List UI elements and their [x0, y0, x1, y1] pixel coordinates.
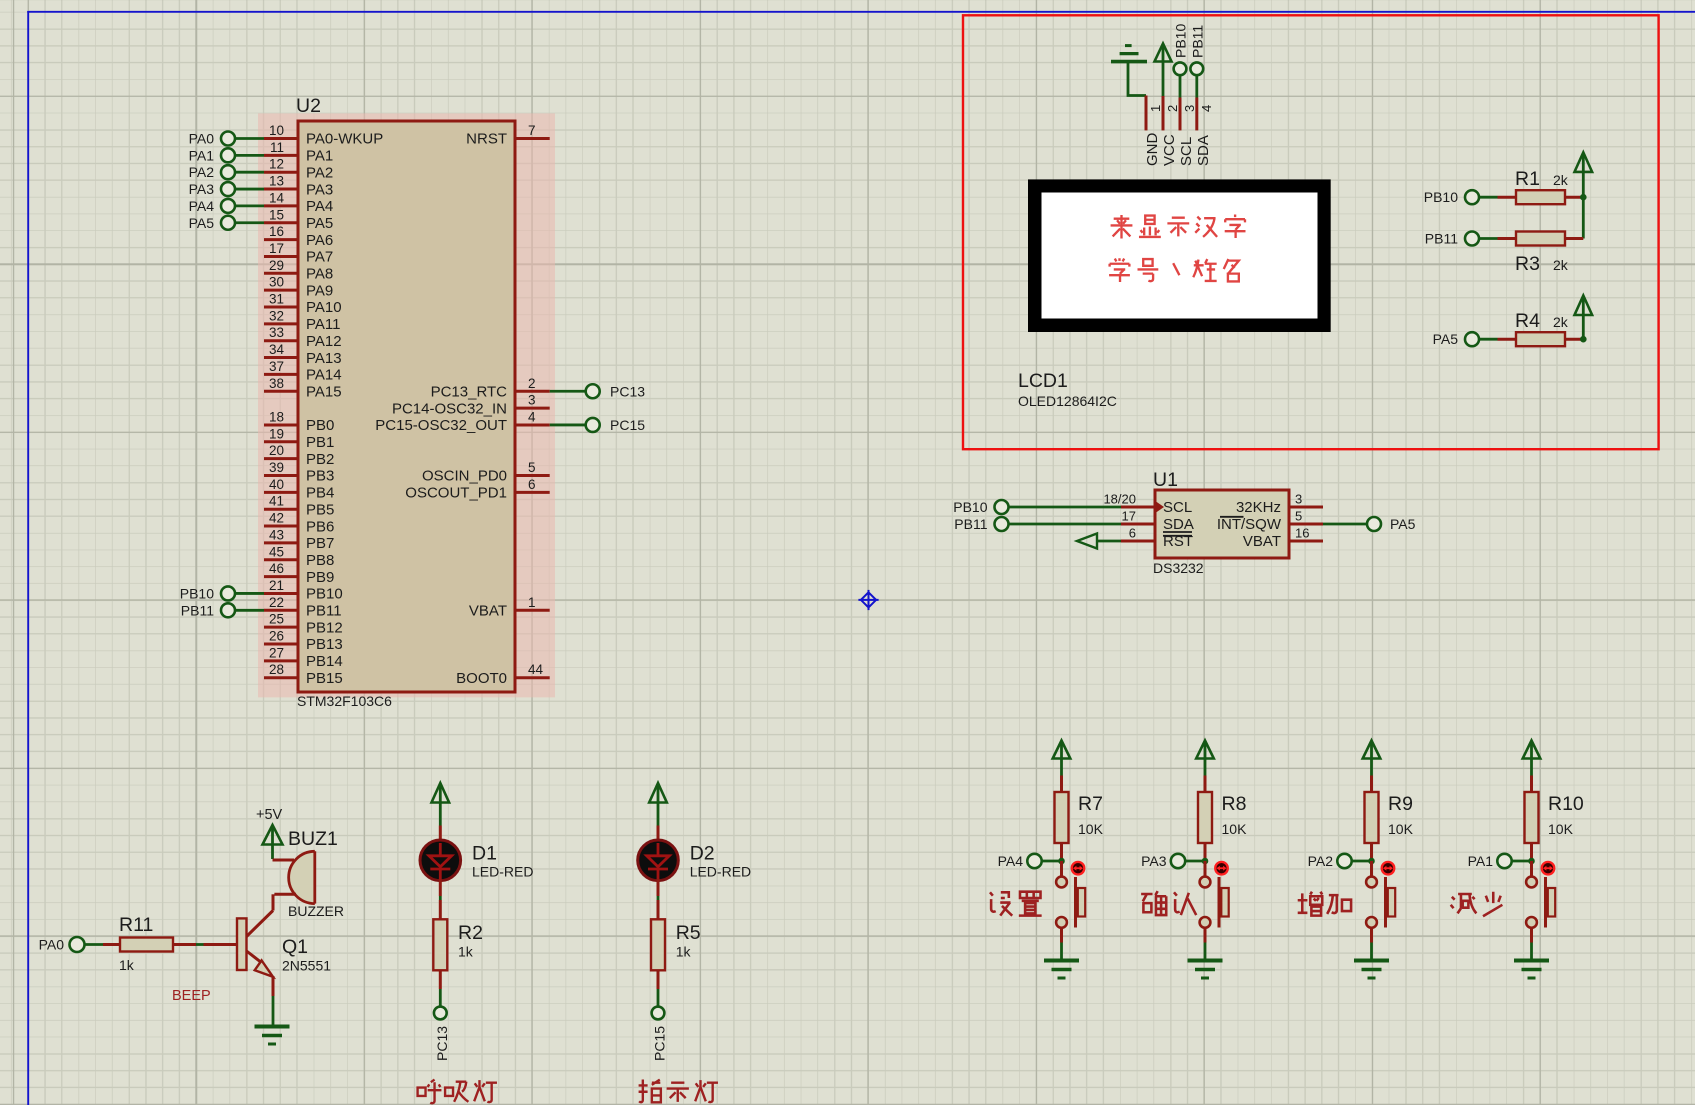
svg-text:PB2: PB2 — [306, 451, 334, 468]
svg-text:10: 10 — [269, 123, 284, 138]
LCD1 display screen — [1042, 193, 1318, 319]
svg-text:R11: R11 — [119, 914, 153, 936]
svg-text:16: 16 — [269, 224, 284, 239]
svg-text:21: 21 — [269, 578, 284, 593]
svg-text:SDA: SDA — [1195, 135, 1212, 166]
svg-text:PA1: PA1 — [306, 148, 333, 165]
push button (R7 column) — [1056, 877, 1085, 928]
svg-text:BUZ1: BUZ1 — [288, 828, 338, 850]
svg-text:17: 17 — [1122, 509, 1136, 524]
terminal PA4 — [998, 853, 1042, 869]
svg-text:PA2: PA2 — [1308, 853, 1334, 869]
resistor R3 — [1516, 232, 1565, 246]
svg-text:GND: GND — [1144, 133, 1161, 167]
svg-text:28: 28 — [269, 662, 284, 677]
caption (que/ren) — [1141, 891, 1196, 915]
svg-text:PA4: PA4 — [998, 853, 1024, 869]
wire PB10 to LCD pin 3 — [1179, 75, 1182, 97]
svg-text:20: 20 — [269, 443, 284, 458]
wire power to R10 — [1530, 776, 1533, 793]
wire button to ground — [1060, 928, 1063, 960]
push button (R10 column) — [1526, 877, 1555, 928]
U2 pin 46 PB9 — [264, 561, 334, 586]
terminal PB10 — [180, 585, 235, 601]
svg-text:30: 30 — [269, 275, 284, 290]
svg-text:2: 2 — [1165, 105, 1180, 112]
svg-text:17: 17 — [269, 241, 284, 256]
terminal PB10 (LCD) — [1173, 24, 1189, 76]
terminal PA1 — [189, 147, 235, 163]
wire GND to LCD pin 1 — [1128, 63, 1146, 96]
svg-text:PA0: PA0 — [39, 937, 65, 953]
terminal PA2 — [1308, 853, 1352, 869]
terminal PC13 — [586, 383, 646, 399]
U2 pin 39 PB3 — [264, 460, 334, 485]
LED D2 — [638, 840, 679, 881]
svg-text:R5: R5 — [676, 922, 701, 944]
ground (R10 column) — [1514, 959, 1549, 963]
svg-text:37: 37 — [269, 359, 284, 374]
svg-text:BOOT0: BOOT0 — [456, 670, 507, 687]
svg-text:PB10: PB10 — [180, 585, 214, 601]
U1 pin 18/20 SCL — [1103, 492, 1192, 517]
svg-text:39: 39 — [269, 460, 284, 475]
power arrow (R10) — [1523, 741, 1541, 759]
svg-text:PB14: PB14 — [306, 653, 343, 670]
terminal PB10 (U1) — [953, 499, 1008, 515]
svg-text:2: 2 — [528, 376, 536, 391]
LCD text line 1 (lai xian shi han zi) — [1111, 215, 1246, 239]
power arrow (R1) — [1575, 152, 1593, 172]
svg-text:LED-RED: LED-RED — [690, 864, 751, 880]
svg-text:U1: U1 — [1153, 469, 1178, 491]
svg-text:3: 3 — [1295, 492, 1302, 507]
svg-text:13: 13 — [269, 174, 284, 189]
power arrow (R8) — [1196, 741, 1214, 759]
svg-text:38: 38 — [269, 376, 284, 391]
svg-text:31: 31 — [269, 292, 284, 307]
LCD1 pin 4 SDA — [1195, 98, 1214, 167]
svg-text:1k: 1k — [119, 957, 135, 973]
svg-text:33: 33 — [269, 325, 284, 340]
wire R5 to terminal PC15 — [657, 970, 660, 1006]
LCD text line 2 (xue hao dun xing ming) — [1109, 258, 1239, 282]
resistor R5 — [651, 919, 665, 970]
svg-text:PA15: PA15 — [306, 383, 342, 400]
svg-text:PA5: PA5 — [189, 215, 215, 231]
svg-text:4: 4 — [1199, 105, 1214, 112]
U1 pin 16 VBAT — [1243, 526, 1323, 551]
U1 pin 17 SDA — [1121, 509, 1194, 534]
svg-text:PB11: PB11 — [1425, 230, 1458, 246]
svg-text:PB6: PB6 — [306, 518, 334, 535]
svg-text:27: 27 — [269, 645, 284, 660]
U2 pin 38 PA15 — [264, 376, 342, 401]
power arrow (D2) — [649, 783, 667, 803]
terminal PA5 wire — [235, 221, 265, 224]
power arrow (R7) — [1053, 741, 1071, 759]
svg-text:26: 26 — [269, 629, 284, 644]
svg-text:R2: R2 — [458, 922, 483, 944]
LCD1 display frame — [1028, 179, 1331, 332]
svg-text:PA6: PA6 — [306, 232, 333, 249]
node R4/power junction — [1580, 336, 1587, 343]
terminal PB11 (LCD) — [1189, 25, 1205, 76]
wire power to R7 — [1060, 776, 1063, 793]
caption (zeng/jia) — [1298, 892, 1351, 916]
svg-text:PA4: PA4 — [189, 198, 215, 214]
resistor R11 right pin — [173, 943, 196, 946]
svg-text:41: 41 — [269, 494, 284, 509]
resistor R3 left pin — [1498, 237, 1517, 240]
chip U2 body — [298, 121, 515, 692]
terminal PC15 — [652, 1007, 668, 1061]
terminal PA0 (beep) — [39, 937, 85, 953]
power arrow (D1) — [432, 783, 450, 803]
svg-text:PB12: PB12 — [306, 619, 343, 636]
svg-text:R1: R1 — [1515, 168, 1540, 190]
svg-text:46: 46 — [269, 561, 284, 576]
svg-text:STM32F103C6: STM32F103C6 — [297, 693, 392, 709]
terminal PC13 wire — [550, 390, 586, 393]
svg-text:SCL: SCL — [1163, 499, 1192, 516]
resistor R10 — [1525, 792, 1539, 843]
U2 pin 28 PB15 — [264, 662, 343, 687]
wire R10 to node — [1530, 843, 1533, 861]
terminal PA4 wire — [235, 204, 265, 207]
U2 pin 43 PB7 — [264, 527, 334, 552]
svg-text:PA3: PA3 — [189, 181, 215, 197]
U2 pin 2 PC13_RTC — [431, 376, 550, 401]
resistor R11 left pin — [103, 943, 120, 946]
LCD1 pin 1 GND — [1144, 96, 1163, 167]
U2 pin 29 PA8 — [264, 258, 333, 283]
svg-text:7: 7 — [528, 123, 536, 138]
svg-text:40: 40 — [269, 477, 284, 492]
svg-text:VBAT: VBAT — [469, 603, 507, 620]
svg-text:R8: R8 — [1222, 793, 1247, 815]
svg-text:PC13: PC13 — [434, 1026, 450, 1061]
svg-text:PA9: PA9 — [306, 282, 333, 299]
U2 pin 40 PB4 — [264, 477, 334, 502]
wire PB10 to R1 — [1479, 196, 1498, 199]
wire PB10 to U1 SCL — [1009, 506, 1122, 509]
ground (R8 column) — [1188, 959, 1223, 963]
svg-text:1k: 1k — [458, 944, 474, 960]
svg-text:PB10: PB10 — [306, 586, 343, 603]
wire node to button — [1204, 861, 1207, 876]
svg-text:D2: D2 — [690, 843, 715, 865]
svg-text:R4: R4 — [1515, 310, 1540, 332]
svg-text:PB5: PB5 — [306, 501, 334, 518]
terminal PC15 wire — [550, 424, 586, 427]
svg-text:3: 3 — [1182, 105, 1197, 112]
svg-text:29: 29 — [269, 258, 284, 273]
resistor R4 — [1516, 332, 1565, 346]
svg-text:R10: R10 — [1548, 793, 1584, 815]
svg-text:SDA: SDA — [1163, 516, 1194, 533]
svg-text:DS3232: DS3232 — [1153, 560, 1204, 576]
svg-text:PB7: PB7 — [306, 535, 334, 552]
svg-text:1: 1 — [528, 595, 536, 610]
U2 pin 26 PB13 — [264, 629, 343, 654]
svg-text:PB3: PB3 — [306, 468, 334, 485]
caption (zhi/shi/deng) — [639, 1080, 718, 1103]
resistor R1 — [1516, 190, 1565, 204]
svg-text:PB15: PB15 — [306, 670, 343, 687]
terminal PA5 — [1433, 331, 1479, 347]
svg-text:U2: U2 — [296, 95, 321, 117]
svg-text:4: 4 — [528, 409, 536, 424]
svg-text:5: 5 — [528, 460, 536, 475]
svg-text:PA0: PA0 — [189, 131, 215, 147]
wire R8 to node — [1204, 843, 1207, 861]
svg-text:BEEP: BEEP — [172, 988, 211, 1004]
U1 RST input arrow — [1077, 534, 1121, 549]
svg-text:PA10: PA10 — [306, 299, 342, 316]
wire PA5 to R4 — [1479, 338, 1498, 341]
svg-text:OLED12864I2C: OLED12864I2C — [1018, 393, 1117, 409]
U2 pin 4 PC15-OSC32_OUT — [375, 409, 549, 434]
svg-text:11: 11 — [270, 140, 284, 155]
chip U1 body — [1155, 490, 1289, 558]
svg-text:INT/SQW: INT/SQW — [1217, 516, 1282, 533]
svg-text:PA5: PA5 — [306, 215, 333, 232]
caption (she/zhi4) — [990, 892, 1042, 916]
resistor R2 — [433, 919, 447, 970]
U2 pin 7 NRST — [466, 123, 550, 148]
terminal PA4 — [189, 198, 235, 214]
svg-text:2k: 2k — [1553, 314, 1569, 330]
svg-text:PA0-WKUP: PA0-WKUP — [306, 131, 383, 148]
svg-text:R9: R9 — [1388, 793, 1413, 815]
svg-text:2k: 2k — [1553, 172, 1569, 188]
button interactive marker — [1072, 862, 1085, 875]
wire PB11 to U1 SDA — [1009, 523, 1122, 526]
svg-text:PB10: PB10 — [1173, 24, 1189, 58]
svg-text:45: 45 — [269, 544, 284, 559]
svg-text:SCL: SCL — [1178, 137, 1195, 166]
svg-text:25: 25 — [269, 612, 284, 627]
terminal PA3 wire — [235, 188, 265, 191]
terminal PB11 — [1425, 230, 1479, 246]
svg-text:PA1: PA1 — [189, 147, 215, 163]
svg-text:R7: R7 — [1078, 793, 1103, 815]
wire PB11 to LCD pin 4 — [1195, 75, 1198, 97]
svg-text:18: 18 — [269, 409, 284, 424]
wire PB11 to R3 — [1479, 237, 1498, 240]
resistor R9 — [1365, 792, 1379, 843]
svg-text:10K: 10K — [1222, 821, 1248, 837]
U2 pin 21 PB10 — [264, 578, 343, 603]
svg-text:PB11: PB11 — [181, 602, 214, 618]
svg-text:6: 6 — [1129, 526, 1136, 541]
wire PA2 to node — [1352, 860, 1372, 863]
U2 pin 20 PB2 — [264, 443, 334, 468]
svg-text:22: 22 — [269, 595, 284, 610]
svg-text:PA11: PA11 — [306, 316, 340, 333]
U2 pin 41 PB5 — [264, 494, 334, 519]
LCD1 pin 2 VCC — [1161, 96, 1180, 166]
U2 pin 42 PB6 — [264, 511, 334, 536]
U2 pin 45 PB8 — [264, 544, 334, 569]
resistor R8 — [1198, 792, 1212, 843]
svg-text:6: 6 — [528, 477, 536, 492]
terminal PB10 — [1424, 189, 1479, 205]
resistor R1 left pin — [1498, 196, 1517, 199]
terminal PA0 wire — [235, 137, 265, 140]
button interactive marker — [1542, 862, 1555, 875]
wire node to button — [1530, 861, 1533, 876]
U2 pin 10 PA0-WKUP — [264, 123, 383, 148]
terminal PA1 wire — [235, 154, 265, 157]
U2 pin 22 PB11 — [264, 595, 342, 620]
wire node to button — [1060, 861, 1063, 876]
svg-text:PB11: PB11 — [306, 603, 342, 620]
terminal PA3 — [189, 181, 235, 197]
terminal PB10 wire — [235, 592, 265, 595]
wire button to ground — [1204, 928, 1207, 960]
wire PA3 to node — [1185, 860, 1205, 863]
U2 pin 11 PA1 — [264, 140, 333, 165]
svg-text:12: 12 — [269, 157, 284, 172]
svg-text:VBAT: VBAT — [1243, 533, 1281, 550]
LED D1 — [420, 840, 461, 881]
node R7/button junction — [1058, 858, 1065, 865]
svg-text:16: 16 — [1295, 526, 1309, 541]
U2 pin 44 BOOT0 — [456, 662, 550, 687]
wire R7 to node — [1060, 843, 1063, 861]
wire power to D2 — [657, 826, 660, 842]
svg-text:PA12: PA12 — [306, 333, 342, 350]
node R1/R3/power junction — [1580, 194, 1587, 201]
wire power to D1 — [439, 826, 442, 842]
svg-text:PA7: PA7 — [306, 249, 333, 266]
svg-text:PC14-OSC32_IN: PC14-OSC32_IN — [392, 400, 507, 417]
wire button to ground — [1530, 928, 1533, 960]
wire U1 INT/SQW to PA5 — [1323, 523, 1367, 526]
svg-text:PB11: PB11 — [1189, 25, 1205, 58]
U1 pin 3 32KHz — [1236, 492, 1323, 517]
Q1 emitter wire to ground — [272, 976, 275, 1026]
U2 pin 34 PA13 — [264, 342, 342, 367]
U2 pin 33 PA12 — [264, 325, 342, 350]
svg-text:OSCOUT_PD1: OSCOUT_PD1 — [405, 485, 507, 502]
node R10/button junction — [1528, 858, 1535, 865]
terminal PB11 — [181, 602, 235, 618]
svg-text:44: 44 — [528, 662, 544, 677]
U2 pin 25 PB12 — [264, 612, 343, 637]
svg-text:PB10: PB10 — [1424, 189, 1458, 205]
svg-text:VCC: VCC — [1161, 134, 1178, 166]
resistor R11 — [120, 938, 173, 952]
svg-text:LED-RED: LED-RED — [472, 864, 533, 880]
wire PA4 to node — [1042, 860, 1062, 863]
svg-text:PA3: PA3 — [1141, 853, 1167, 869]
svg-text:19: 19 — [269, 426, 284, 441]
wire R2 to terminal PC13 — [439, 970, 442, 1006]
svg-text:42: 42 — [269, 511, 284, 526]
node R8/button junction — [1202, 858, 1209, 865]
U2 pin 1 VBAT — [469, 595, 550, 620]
terminal PB11 wire — [235, 609, 265, 612]
svg-text:PB10: PB10 — [953, 499, 987, 515]
push button (R9 column) — [1366, 877, 1395, 928]
resistor R4 right pin — [1565, 338, 1583, 341]
power arrow (R9) — [1363, 741, 1381, 759]
svg-text:PA5: PA5 — [1390, 516, 1416, 532]
power arrow (R4) — [1575, 296, 1593, 316]
svg-text:10K: 10K — [1388, 821, 1414, 837]
wire PA1 to node — [1512, 860, 1532, 863]
terminal PB11 (U1) — [954, 516, 1008, 532]
wire R11 to Q1 base — [196, 943, 204, 946]
svg-text:PC15-OSC32_OUT: PC15-OSC32_OUT — [375, 417, 507, 434]
svg-text:+5V: +5V — [256, 807, 283, 823]
wire node to button — [1370, 861, 1373, 876]
svg-text:PB11: PB11 — [954, 516, 987, 532]
sheet border left (blue) — [27, 11, 29, 1105]
svg-text:2N5551: 2N5551 — [282, 958, 331, 974]
resistor R7 — [1055, 792, 1069, 843]
svg-text:32KHz: 32KHz — [1236, 499, 1281, 516]
U2 pin 12 PA2 — [264, 157, 333, 182]
U2 pin 19 PB1 — [264, 426, 334, 451]
U2 pin 31 PA10 — [264, 292, 342, 317]
push button (R8 column) — [1200, 877, 1229, 928]
svg-text:34: 34 — [269, 342, 285, 357]
wire +5V to BUZ1 top pin — [273, 859, 295, 862]
U2 pin 18 PB0 — [264, 409, 334, 434]
U2 pin 5 OSCIN_PD0 — [422, 460, 550, 485]
caption (jian/shao) — [1451, 892, 1503, 917]
U2 pin 17 PA7 — [264, 241, 333, 266]
terminal PA1 — [1468, 853, 1512, 869]
terminal PC15 — [586, 417, 646, 433]
U2 pin 14 PA4 — [264, 190, 333, 215]
resistor R1 right pin — [1565, 196, 1583, 199]
svg-text:LCD1: LCD1 — [1018, 370, 1068, 392]
terminal PA0 — [189, 131, 235, 147]
svg-text:PA4: PA4 — [306, 198, 333, 215]
wire junction down to R3 — [1582, 197, 1585, 238]
terminal PA3 — [1141, 853, 1185, 869]
sheet border top (blue) — [27, 11, 1695, 13]
terminal PA2 wire — [235, 171, 265, 174]
svg-text:PB8: PB8 — [306, 552, 334, 569]
wire power to R8 — [1204, 776, 1207, 793]
caption (hu/xi/deng) — [418, 1080, 497, 1104]
wire button to ground — [1370, 928, 1373, 960]
svg-text:PC13_RTC: PC13_RTC — [431, 383, 508, 400]
terminal PA5 (U1) — [1367, 516, 1416, 532]
U2 selection highlight band — [258, 113, 555, 697]
ground (Q1 emitter) — [255, 1025, 290, 1029]
svg-text:PC13: PC13 — [610, 383, 645, 399]
LCD1 pin 3 SCL — [1178, 98, 1197, 167]
svg-text:PA8: PA8 — [306, 266, 333, 283]
U2 pin 27 PB14 — [264, 645, 343, 670]
svg-text:14: 14 — [269, 190, 285, 205]
origin marker crosshair — [858, 590, 878, 610]
resistor R3 right pin — [1565, 237, 1583, 240]
svg-text:PA13: PA13 — [306, 350, 342, 367]
LCD1 VCC power arrow — [1155, 44, 1172, 62]
U2 pin 37 PA14 — [264, 359, 342, 384]
power arrow +5V (BUZ1) — [263, 825, 283, 845]
svg-text:PA5: PA5 — [1433, 331, 1459, 347]
svg-text:PB0: PB0 — [306, 417, 334, 434]
